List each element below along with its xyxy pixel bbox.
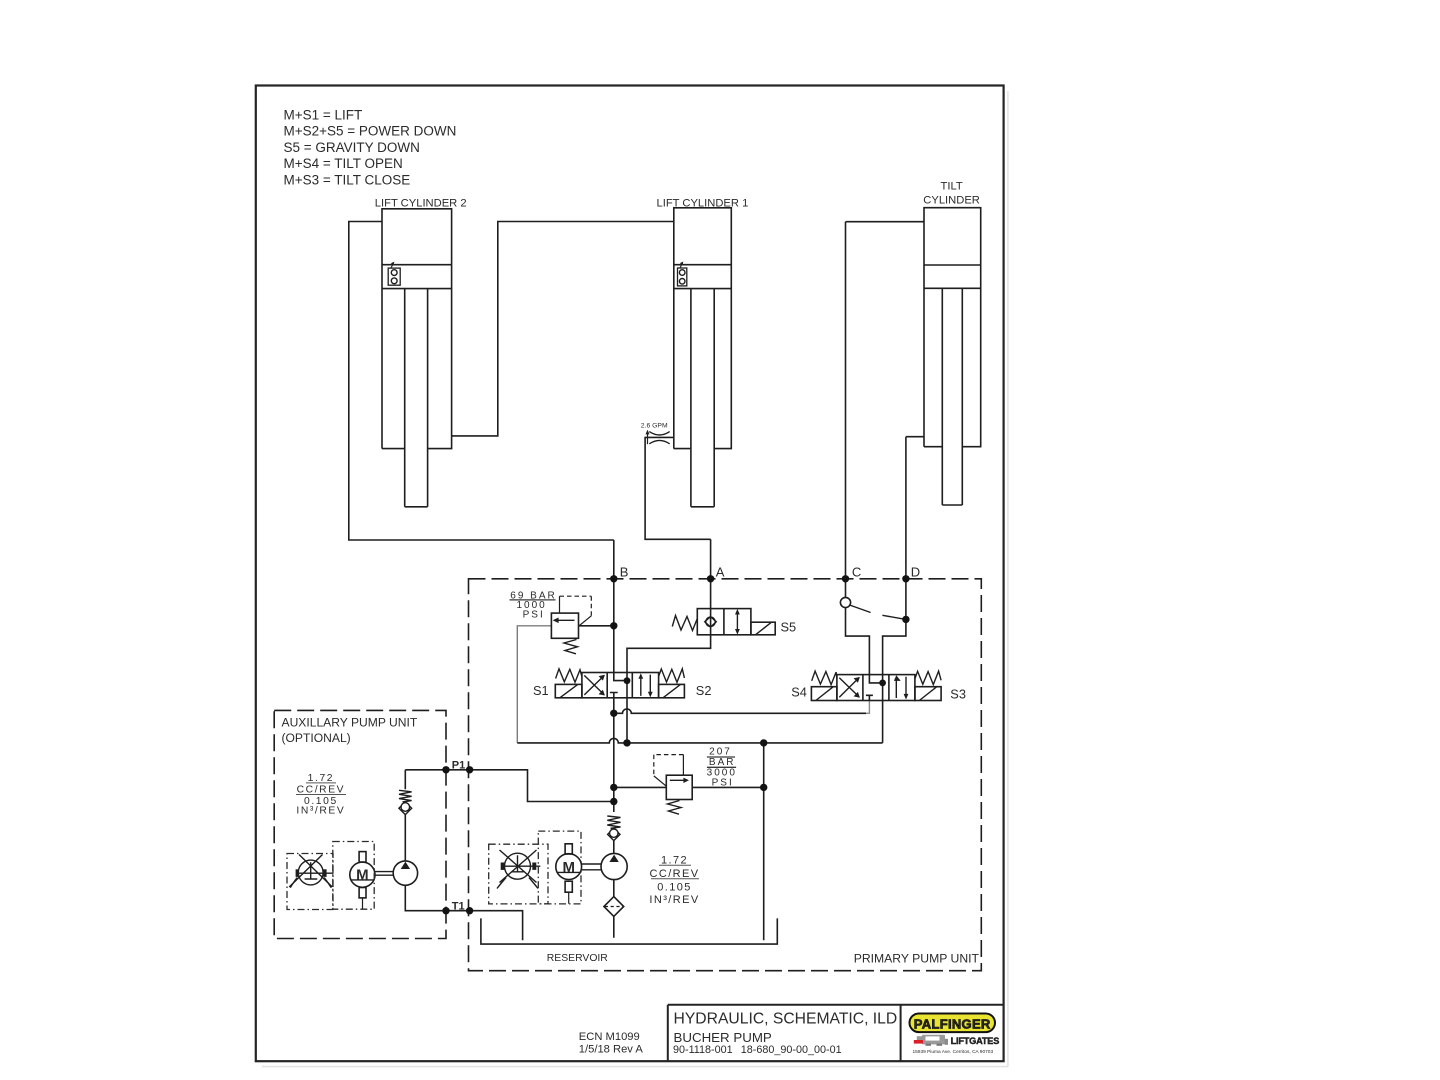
svg-text:PSI: PSI: [523, 609, 545, 620]
svg-text:ECN M1099: ECN M1099: [579, 1031, 640, 1043]
svg-text:S1: S1: [533, 683, 549, 698]
svg-text:LIFTGATES: LIFTGATES: [951, 1036, 1000, 1046]
svg-text:IN³/REV: IN³/REV: [296, 805, 345, 816]
svg-text:M+S2+S5 = POWER DOWN: M+S2+S5 = POWER DOWN: [284, 124, 457, 139]
svg-text:PALFINGER: PALFINGER: [914, 1016, 991, 1031]
svg-text:T1: T1: [452, 900, 465, 912]
svg-text:C: C: [852, 565, 861, 580]
svg-text:LIFT CYLINDER 2: LIFT CYLINDER 2: [375, 198, 467, 210]
svg-text:S2: S2: [696, 683, 712, 698]
svg-text:IN³/REV: IN³/REV: [649, 894, 699, 906]
svg-text:15939 Piuma Ave. Cerritos, CA: 15939 Piuma Ave. Cerritos, CA 90703: [912, 1049, 993, 1055]
svg-text:CC/REV: CC/REV: [297, 785, 346, 796]
svg-text:1.72: 1.72: [308, 773, 334, 784]
svg-text:HYDRAULIC, SCHEMATIC, ILD: HYDRAULIC, SCHEMATIC, ILD: [674, 1010, 898, 1027]
svg-text:TILT: TILT: [941, 181, 963, 193]
svg-text:P1: P1: [452, 759, 465, 771]
svg-text:(OPTIONAL): (OPTIONAL): [282, 731, 351, 745]
svg-text:S5 = GRAVITY DOWN: S5 = GRAVITY DOWN: [284, 140, 420, 155]
svg-text:AUXILLARY PUMP UNIT: AUXILLARY PUMP UNIT: [282, 715, 418, 729]
svg-text:S5: S5: [781, 620, 797, 635]
svg-text:M+S1 = LIFT: M+S1 = LIFT: [284, 107, 363, 122]
svg-text:90-1118-001: 90-1118-001: [673, 1044, 733, 1056]
svg-text:D: D: [911, 565, 920, 580]
svg-text:M+S4 = TILT OPEN: M+S4 = TILT OPEN: [284, 156, 403, 171]
svg-text:S4: S4: [791, 685, 807, 700]
svg-text:M: M: [562, 859, 575, 876]
svg-text:RESERVOIR: RESERVOIR: [547, 953, 609, 964]
svg-text:B: B: [620, 564, 629, 579]
svg-text:PRIMARY PUMP UNIT: PRIMARY PUMP UNIT: [854, 951, 980, 965]
svg-text:PSI: PSI: [712, 778, 734, 789]
svg-text:A: A: [716, 564, 725, 579]
svg-text:2.6 GPM: 2.6 GPM: [641, 422, 668, 429]
svg-text:BAR: BAR: [709, 757, 736, 768]
svg-text:CYLINDER: CYLINDER: [923, 195, 980, 207]
svg-text:M: M: [356, 867, 369, 884]
svg-text:1/5/18 Rev A: 1/5/18 Rev A: [579, 1044, 644, 1056]
svg-text:S3: S3: [950, 687, 966, 702]
svg-text:18-680_90-00_00-01: 18-680_90-00_00-01: [741, 1044, 842, 1056]
svg-text:M+S3 = TILT CLOSE: M+S3 = TILT CLOSE: [284, 173, 411, 188]
svg-text:0.105: 0.105: [657, 882, 692, 894]
